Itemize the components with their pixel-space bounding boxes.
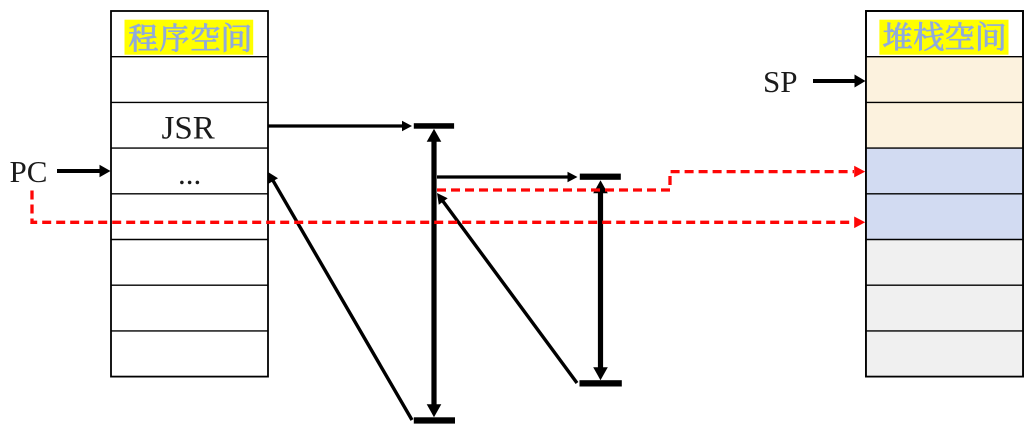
program space row lines — [111, 57, 268, 331]
stack gray rows — [866, 240, 1023, 377]
arrow JSR to first stack op — [268, 121, 412, 131]
program space header text 程序空间 — [129, 23, 249, 52]
red dashed stack push path — [437, 172, 854, 190]
subroutine 2 top bar — [580, 174, 621, 180]
svg-text:JSR: JSR — [162, 111, 215, 147]
red dashed stack push arrowhead — [854, 166, 865, 178]
svg-text:PC: PC — [10, 154, 48, 189]
arrow first op to second op — [437, 172, 578, 182]
stack row lines — [866, 57, 1023, 331]
PC pointer arrow — [57, 165, 111, 177]
stack cream rows — [866, 57, 1023, 148]
red dashed PC return arrowhead — [854, 217, 865, 229]
svg-text:SP: SP — [763, 64, 797, 99]
subroutine 2 bottom bar — [580, 380, 622, 386]
stack table border redraw — [866, 11, 1023, 377]
subroutine 2 vertical double arrow — [593, 180, 608, 380]
SP pointer arrow — [813, 75, 866, 88]
subroutine 1 vertical double arrow — [427, 129, 442, 418]
red dashed PC return path — [32, 191, 854, 223]
program space table frame — [111, 11, 268, 377]
subroutine 1 top bar — [414, 123, 454, 129]
subroutine 1 bottom bar — [414, 417, 455, 423]
return arrow to ellipsis row (diagonal) — [268, 172, 412, 420]
stack header text 堆栈空间 — [884, 22, 1004, 51]
stack header highlight — [879, 20, 1008, 55]
svg-text:...: ... — [178, 156, 201, 191]
stack blue rows — [866, 148, 1023, 239]
stack space table frame — [866, 11, 1023, 377]
program space header highlight — [125, 20, 254, 55]
return arrow to first op stack (diagonal) — [437, 193, 577, 383]
